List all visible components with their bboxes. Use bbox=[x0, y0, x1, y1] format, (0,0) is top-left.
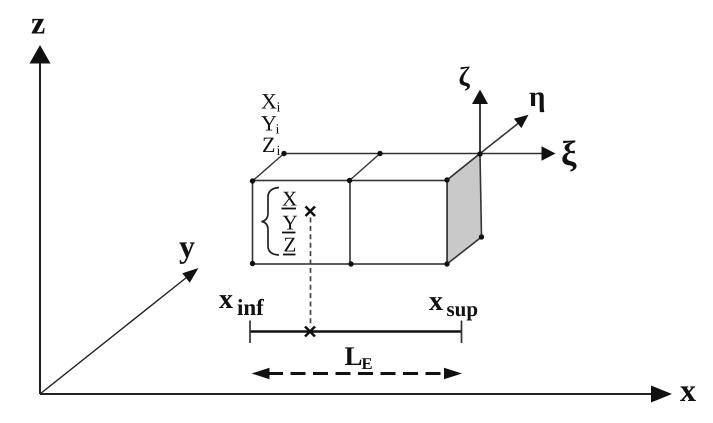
svg-text:sup: sup bbox=[447, 297, 479, 321]
left tick bbox=[249, 321, 251, 344]
dashed projection line bbox=[310, 218, 312, 328]
box front face middle line bbox=[349, 181, 351, 265]
element length left arrowhead bbox=[252, 368, 270, 379]
svg-text:ζ: ζ bbox=[459, 62, 471, 92]
svg-text:Z: Z bbox=[262, 132, 275, 157]
svg-text:i: i bbox=[277, 101, 281, 116]
y axis line bbox=[40, 276, 189, 395]
node front top-left bbox=[250, 178, 255, 183]
svg-text:L: L bbox=[345, 341, 363, 371]
box back top edge + xi axis line bbox=[284, 153, 542, 155]
svg-text:E: E bbox=[362, 354, 373, 373]
svg-text:x: x bbox=[680, 372, 696, 408]
eta axis arrowhead bbox=[514, 115, 529, 128]
svg-text:ξ: ξ bbox=[561, 134, 577, 173]
element length dashed arrow line bbox=[268, 372, 446, 375]
svg-text:x: x bbox=[219, 284, 233, 315]
svg-text:i: i bbox=[277, 144, 281, 159]
svg-text:X: X bbox=[282, 187, 297, 211]
node front bottom-left bbox=[250, 261, 255, 266]
cross mark on x axis projection bbox=[305, 327, 315, 337]
box top-left depth edge bbox=[253, 154, 285, 182]
element length right arrowhead bbox=[444, 368, 462, 379]
xi axis arrowhead bbox=[542, 146, 556, 160]
node front bottom-right bbox=[444, 261, 449, 266]
xinf-xsup dimension line bbox=[250, 330, 462, 333]
svg-text:x: x bbox=[429, 286, 443, 317]
x axis arrowhead bbox=[651, 386, 672, 403]
svg-text:inf: inf bbox=[237, 295, 264, 320]
node back top-left bbox=[281, 151, 286, 156]
svg-text:y: y bbox=[179, 228, 195, 264]
node front top-middle bbox=[347, 178, 352, 183]
y axis arrowhead bbox=[182, 268, 198, 283]
z axis arrowhead bbox=[30, 45, 51, 64]
svg-text:η: η bbox=[529, 81, 545, 113]
box right face (shaded) bbox=[447, 154, 482, 265]
box top-middle depth edge bbox=[350, 154, 381, 181]
svg-text:Y: Y bbox=[283, 211, 298, 235]
svg-text:Z: Z bbox=[284, 233, 297, 257]
curly brace bbox=[262, 188, 280, 256]
zeta axis arrowhead bbox=[472, 90, 488, 105]
zeta axis line bbox=[479, 103, 481, 154]
node back top-middle bbox=[377, 151, 382, 156]
x axis line bbox=[40, 393, 652, 395]
node front bottom-middle bbox=[348, 261, 353, 266]
box front face bbox=[253, 181, 448, 265]
svg-text:i: i bbox=[276, 123, 280, 138]
node front top-right bbox=[444, 177, 449, 182]
node back top-right (local origin) bbox=[477, 151, 482, 156]
right tick bbox=[461, 321, 463, 344]
svg-text:z: z bbox=[31, 5, 45, 41]
node back bottom-right bbox=[479, 234, 484, 239]
eta axis line bbox=[480, 124, 518, 154]
z axis line bbox=[39, 62, 41, 394]
cross mark at element centroid bbox=[306, 207, 316, 217]
box top-right depth edge / eta axis lower part bbox=[447, 154, 480, 181]
